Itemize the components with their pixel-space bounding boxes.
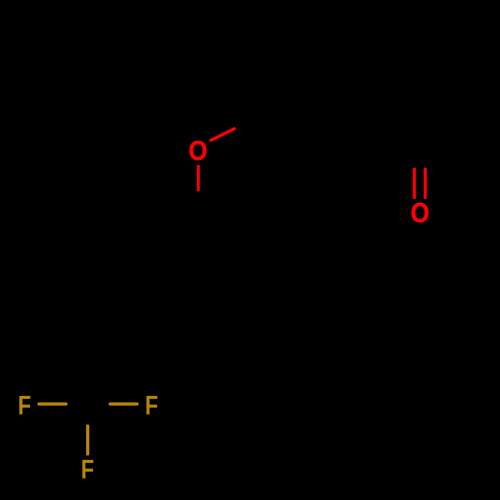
wire bond C-F2 (gold half-bond, horizontal) (110, 402, 137, 405)
wire bond C-F3 (gold half-bond, vertical) (86, 426, 89, 454)
atom O2 (carbonyl oxygen label) (412, 203, 429, 222)
atom F3 (bottom fluorine label) (82, 460, 93, 479)
wire bond F1-C (gold half-bond, horizontal) (39, 402, 66, 405)
atom O1 (methoxy oxygen label) (190, 141, 207, 160)
atom F2 (right fluorine label) (146, 396, 157, 415)
atom F1 (left fluorine label) (19, 396, 30, 415)
wire bond O1-CH3 (red half-bond, up-right) (211, 129, 234, 141)
wire bond O1-ring (red half-bond, vertical down) (197, 166, 200, 190)
wire bond C=O right line (red half of double bond) (424, 169, 427, 198)
wire bond C=O left line (red half of double bond) (413, 169, 416, 198)
